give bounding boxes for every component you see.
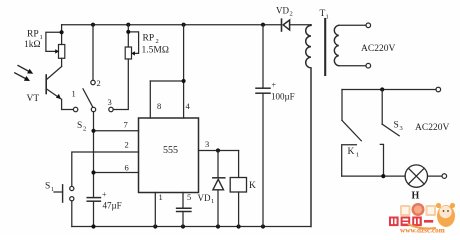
wire top supply rail [62,24,311,26]
capacitor C3 100uF [256,25,270,227]
label 100uF [271,81,295,102]
svg-text:47µF: 47µF [103,201,122,211]
label pin 6 [125,163,129,173]
svg-text:2: 2 [290,11,293,18]
svg-text:7: 7 [124,120,128,130]
svg-text:1: 1 [326,14,329,21]
svg-text:+: + [102,190,107,199]
diode VD1 [213,151,225,227]
svg-text:100µF: 100µF [271,92,295,102]
label pin 7 [124,120,128,130]
label VT [27,94,40,104]
switch S3 [380,90,399,177]
capacitor C2 on pin5 [177,193,191,227]
node junction dots on bottom rail [91,224,265,228]
svg-text:VD: VD [198,193,211,203]
svg-text:VT: VT [27,94,40,104]
transformer T1 core [324,19,326,75]
capacitor C1 47uF [87,198,100,202]
label S2 contact numbers [72,78,112,133]
svg-text:6: 6 [125,163,129,173]
svg-text:AC220V: AC220V [361,44,395,54]
resistor RP1 (rheostat) [46,25,65,67]
lamp H [405,165,427,187]
wire bottom ground rail [72,226,311,228]
svg-text:AC220V: AC220V [415,123,449,133]
relay contact K1 [342,90,362,177]
svg-text:3: 3 [400,125,403,132]
svg-text:K: K [249,181,256,191]
IC 555 timer U1 [139,118,199,193]
svg-text:2: 2 [156,38,159,45]
wire pin3 output [199,148,239,152]
svg-text:RP: RP [27,30,39,40]
label S3 [394,121,403,133]
svg-text:H: H [412,191,420,202]
label K [249,181,256,191]
svg-text:3: 3 [108,97,112,107]
transformer T1 primary winding [306,25,311,227]
svg-text:S: S [45,182,50,192]
svg-text:5: 5 [187,192,191,202]
wire pin8 pin4 supply connection [150,25,185,118]
svg-text:555: 555 [163,145,178,156]
label S1 [45,182,54,194]
transformer T1 secondary winding [334,25,338,65]
svg-text:VD: VD [276,6,289,16]
wire pin2 [72,152,139,186]
svg-text:S: S [394,121,399,131]
svg-text:1: 1 [211,198,214,205]
label AC220V primary side [361,44,395,54]
switch S2 selector contacts [73,25,113,227]
light arrows into VT [15,66,33,82]
wire pin6 [91,170,138,174]
label pin numbers 8 and 4 [157,101,191,111]
svg-text:S: S [77,121,82,131]
wire secondary to AC terminals [339,23,371,68]
label pin 5 [187,192,191,202]
node junction dots on top rail [91,23,265,27]
label T1 [320,9,329,21]
svg-text:4: 4 [186,101,191,111]
svg-text:1kΩ: 1kΩ [24,40,41,50]
svg-text:1: 1 [51,186,54,193]
label 555 [163,145,178,156]
transistor VT phototransistor [46,67,73,110]
svg-text:RP: RP [143,34,155,44]
svg-text:1: 1 [356,152,359,159]
svg-text:2: 2 [125,140,129,150]
label 47uF [102,190,122,211]
label RP1 value [24,30,43,51]
svg-text:www.dzsc.com: www.dzsc.com [400,227,445,235]
svg-text:2: 2 [97,78,101,88]
svg-text:+: + [272,81,277,90]
svg-text:K: K [348,147,355,157]
label VD1 [198,193,215,205]
label RP2 value [142,34,169,56]
svg-text:2: 2 [83,126,86,133]
wire pin7 [91,129,138,133]
label K1 [348,147,360,159]
label VD2 [276,6,293,18]
diode VD2 rectifier [282,19,290,31]
svg-text:1.5MΩ: 1.5MΩ [142,46,169,56]
resistor RP2 (rheostat) [113,25,138,110]
wire lamp circuit bottom [342,174,447,179]
wire lamp circuit top [342,87,441,92]
label pin 1 [159,192,163,202]
svg-text:1: 1 [72,89,76,99]
label AC220V mains side [415,123,449,133]
switch S1 pushbutton [54,185,74,227]
label pin 3 [205,139,209,149]
watermark dzsc logo [389,203,455,235]
label H [412,191,420,202]
relay K coil [230,151,246,227]
svg-text:1: 1 [159,192,163,202]
svg-text:3: 3 [205,139,209,149]
wire pin1 [154,193,156,227]
svg-text:8: 8 [157,101,161,111]
label pin 2 [125,140,129,150]
